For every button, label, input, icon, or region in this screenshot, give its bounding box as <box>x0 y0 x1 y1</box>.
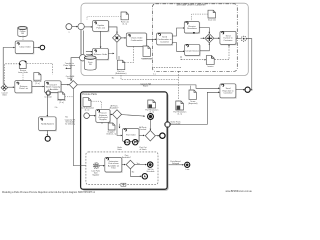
flow diamond3 to end OnSchedule <box>135 164 147 166</box>
svg-text:Order (1..n): Order (1..n) <box>106 132 116 135</box>
sequence flow box6 to diamond D1g <box>61 84 69 86</box>
start event Late Parts non-interrupting <box>91 163 100 177</box>
label Undo Order <box>117 147 122 151</box>
gateway diamond2 <box>145 130 155 141</box>
svg-text:Procure Parts: Procure Parts <box>82 93 97 96</box>
data object doc Part Substitution <box>80 98 94 112</box>
flow task to diamond3 <box>122 164 125 166</box>
drop line into docE <box>189 86 191 90</box>
task Close Order <box>15 41 34 54</box>
flow Receive Resolution to parallel gateway <box>199 28 209 33</box>
svg-text:Invoice: Invoice <box>208 66 214 68</box>
association Check Order down to docG dashed <box>125 46 133 62</box>
svg-text:(1..n): (1..n) <box>178 114 183 116</box>
sequence flow D2 to Check Order Confirmation <box>121 37 125 39</box>
flow S2 to Procure task <box>89 115 95 117</box>
link circle C2 <box>80 55 87 62</box>
data object docI parts quantity <box>58 92 66 104</box>
flow Release right to docG <box>108 53 119 59</box>
parallel gateway plus <box>205 34 214 43</box>
flow GW1 down to Part Order box <box>117 119 122 135</box>
flow multiple event down to end E6 <box>246 39 252 90</box>
task Procure Estimate <box>96 110 111 124</box>
message flow diamondD down into late parts start <box>73 89 92 166</box>
boundary event B2 error <box>133 140 138 145</box>
svg-text:(Expected): (Expected) <box>188 102 198 105</box>
split rail from Send Confirmation <box>172 28 184 51</box>
svg-text:for Delivery: for Delivery <box>65 123 75 126</box>
sequence flow Close Order to E5 <box>34 47 40 49</box>
datastore cylinder D1 <box>18 27 27 37</box>
svg-text:(1..n): (1..n) <box>85 110 90 112</box>
stub flow into gateway left <box>201 37 205 39</box>
svg-text:Close Order: Close Order <box>19 46 31 49</box>
label All Parts OK near diamond2 <box>139 126 146 131</box>
flow Procure task bottom into Part Order top <box>102 122 120 128</box>
sequence flow Check Order to Send Confirmation <box>147 38 156 40</box>
task Send Invoice to Customer <box>220 31 237 45</box>
svg-text:No: No <box>112 77 114 79</box>
outer process rounded border <box>81 3 248 75</box>
association M1 down to Retrieve box <box>22 74 24 81</box>
flow Create Invoice to parallel gateway <box>200 43 210 50</box>
message flow dashed to Rental doc <box>181 59 206 61</box>
document shape Rental in pool <box>206 56 214 69</box>
start event S1 <box>66 24 72 34</box>
label Parts and Plan <box>170 160 181 165</box>
long flow diamondD to Send Rejection <box>77 85 219 88</box>
message flow dashed M1 to task box6 <box>27 63 53 74</box>
gateway GW1 <box>113 110 122 119</box>
flow some parts unavailable up into Send Rejection <box>171 92 220 124</box>
message flow Rental doc to Send Invoice dashed <box>215 45 230 60</box>
end event E7 below Missed <box>45 136 50 141</box>
flow GW1 to throw event T1 <box>122 115 145 117</box>
subprocess Procure Parts container <box>81 92 169 191</box>
flow diamond2 to end E4 <box>155 135 158 137</box>
message flow Create Invoice down dashed <box>179 56 182 100</box>
flow Send Invoice to multiple event <box>236 38 241 40</box>
data object docH <box>141 46 153 60</box>
svg-text:Parts List: Parts List <box>96 26 105 29</box>
svg-text:of Stock: of Stock <box>140 148 147 151</box>
svg-text:Sell-Side Order's Customer: Sell-Side Order's Customer <box>176 4 205 7</box>
flow gateway to Send Invoice <box>214 37 219 39</box>
event subprocess marker <box>121 183 126 186</box>
end event E3 dark <box>185 162 190 171</box>
label All Parts Available <box>110 104 119 109</box>
sequence flow Retrieve to box6 with label <box>32 86 44 88</box>
svg-text:Customer: Customer <box>223 39 232 42</box>
sequence flow G1 to Retrieve Parts List <box>8 86 14 88</box>
svg-text:Notify System: Notify System <box>41 123 54 126</box>
label Some Parts Unavailable <box>171 121 181 126</box>
data object docB <box>208 10 216 21</box>
svg-text:Order?: Order? <box>67 77 73 80</box>
flow C2 left and down to diamondD <box>71 58 80 80</box>
customer pool dash-dot border <box>153 4 238 72</box>
svg-text:Available?: Available? <box>110 106 119 109</box>
data object doc7 <box>106 123 116 135</box>
svg-text:Yes: Yes <box>65 117 68 119</box>
association docA to task dotted <box>87 17 121 21</box>
svg-text:Available?: Available? <box>122 156 131 159</box>
flows C2 into Release Order <box>86 52 92 55</box>
svg-text:Release Order: Release Order <box>94 53 108 56</box>
sequence flow C1 to task Update Parts List <box>84 26 92 28</box>
task Receive Resolution <box>184 22 200 34</box>
data object docA <box>121 12 129 25</box>
end event E5 after Close Order <box>40 45 45 50</box>
svg-text:Supplier: Supplier <box>92 174 99 177</box>
task box6 Check Capacity <box>44 81 61 93</box>
data object docF above flow <box>33 73 41 86</box>
svg-text:(1..n): (1..n) <box>35 83 40 85</box>
gateway G1 <box>1 84 8 96</box>
data object docC <box>145 100 158 114</box>
sequence flow Update to diamond D2 <box>109 27 118 33</box>
flow diamond3 down to end E2 <box>130 169 141 176</box>
end event E2 escalation <box>142 174 147 179</box>
svg-text:(Substitution): (Substitution) <box>115 72 127 75</box>
svg-text:Create Invoice: Create Invoice <box>185 49 199 52</box>
association docB to Receive Resolution dashed <box>192 14 208 21</box>
message flow dashed into M1 from gateway column <box>5 64 19 84</box>
data object docE Some Expected <box>188 90 198 105</box>
sequence flow gateway G1 up into Close Order <box>3 48 14 85</box>
svg-text:(1..n): (1..n) <box>123 23 128 25</box>
svg-text:Late: Late <box>186 168 190 171</box>
svg-text:(1..n): (1..n) <box>59 102 64 104</box>
datastore cylinder Parts DB <box>84 56 96 70</box>
throw event T1 dark <box>148 114 154 120</box>
svg-text:Delayed: Delayed <box>172 163 179 165</box>
flow Send Rejection to end E6 <box>236 89 244 91</box>
boundary event on subprocess edge <box>165 122 171 128</box>
data object docG Substitution <box>115 60 127 75</box>
event subprocess dashed container <box>86 152 158 185</box>
sequence flow Missed to E7 <box>46 131 48 136</box>
label Part Obsolete <box>139 146 147 151</box>
task Send Rejection to Customer <box>220 84 237 99</box>
association cylinder D1 to task Close Order <box>22 36 24 41</box>
svg-text:Parts List: Parts List <box>19 87 28 90</box>
flow start to Determine task <box>99 165 104 167</box>
task Part Order <box>123 129 140 143</box>
association docI to capacity line <box>65 96 74 98</box>
sequence flow boundary event down to Missed box <box>46 96 48 117</box>
svg-text:Schedule: Schedule <box>147 171 155 173</box>
svg-text:Modeling a Parts Process Procu: Modeling a Parts Process Procure Rejecti… <box>2 191 96 194</box>
link circle C1 <box>78 23 84 29</box>
flow D2 down to docG <box>116 42 118 59</box>
data object docD Part Resolution <box>173 101 186 116</box>
task Determine Parts <box>105 158 123 173</box>
svg-text:Parts System: Parts System <box>64 64 76 67</box>
svg-text:Reject: Reject <box>143 84 149 87</box>
label Capacity OK <box>65 119 76 126</box>
svg-text:www.BPMNForum.com.au: www.BPMNForum.com.au <box>226 190 253 193</box>
svg-text:Tracked: Tracked <box>139 128 146 131</box>
flow T1 down to diamond2 <box>150 120 152 130</box>
end event dark E1 <box>147 162 155 173</box>
task Check Order Confirmation <box>126 33 147 47</box>
boundary event on box6 <box>44 91 52 99</box>
message flow pool bottom dashed <box>154 66 182 68</box>
svg-text:Order: Order <box>2 93 7 96</box>
boundary event B1 compensation <box>125 140 130 145</box>
task Send Confirmation to Customer <box>157 33 173 46</box>
task Update Parts List <box>93 21 110 33</box>
manual review shape M1 <box>18 61 28 74</box>
task Missed System <box>39 117 57 132</box>
sequence flow S1 to C1 <box>72 26 77 28</box>
svg-text:Part Order: Part Order <box>126 134 136 137</box>
label Part Available <box>122 154 131 159</box>
end event E6 <box>245 87 250 92</box>
task Create Invoice <box>185 44 201 56</box>
svg-text:Confirmation: Confirmation <box>131 39 144 42</box>
svg-text:Unavailable: Unavailable <box>171 124 181 126</box>
flow Update down to Release <box>100 31 102 47</box>
task Release Order <box>93 48 110 60</box>
dashed assoc docG to docD <box>121 75 179 80</box>
svg-text:Customer: Customer <box>223 92 232 95</box>
intermediate multiple event on pool edge <box>241 36 246 41</box>
gateway diamond3 <box>126 160 135 169</box>
svg-text:No: No <box>132 172 134 174</box>
gateway diamondD over capacity <box>66 76 78 89</box>
label Capacity OK on line <box>140 82 151 87</box>
flow task to GW1 <box>110 113 112 115</box>
svg-text:Customer: Customer <box>160 41 169 44</box>
flow arrow into Transfer label <box>66 67 71 69</box>
end event E4 <box>160 133 165 138</box>
svg-text:2 b: 2 b <box>55 107 58 109</box>
vertical flows C1 to C2 <box>81 30 84 55</box>
start event S2 <box>84 113 90 119</box>
svg-text:Order: Order <box>117 148 122 151</box>
gateway D2 with X <box>113 34 122 43</box>
flow out of subprocess to end E3 <box>169 164 184 166</box>
svg-text:Issue List: Issue List <box>208 19 216 22</box>
task Retrieve Parts List <box>15 81 33 94</box>
svg-text:Issue Order: Issue Order <box>18 71 28 74</box>
svg-text:Supplier: Supplier <box>99 118 107 121</box>
svg-text:no result: no result <box>44 95 52 98</box>
association doc to task dashed <box>91 101 101 109</box>
svg-text:Resolution: Resolution <box>187 27 198 30</box>
flow Part Order to diamond2 <box>139 134 144 136</box>
svg-text:Confirmation: Confirmation <box>142 57 153 60</box>
